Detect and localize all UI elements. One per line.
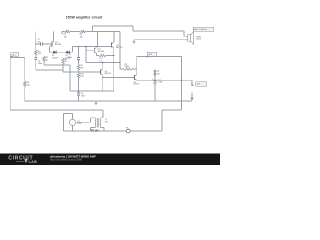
svg-text:10u: 10u: [38, 41, 41, 43]
svg-text:1N4007: 1N4007: [52, 57, 58, 59]
svg-text:10k: 10k: [64, 36, 67, 38]
svg-text:100R: 100R: [124, 66, 129, 68]
svg-text:F1: F1: [126, 128, 128, 130]
svg-text:10k: 10k: [80, 68, 83, 70]
svg-text:8ohm: 8ohm: [196, 39, 201, 41]
svg-text:1k: 1k: [46, 60, 48, 62]
svg-text:8ohm / 100W spk: 8ohm / 100W spk: [194, 29, 207, 31]
svg-text:100n: 100n: [38, 63, 42, 65]
svg-text:220V: 220V: [77, 123, 82, 125]
svg-text:http://circuitlab.com/c/2588: http://circuitlab.com/c/2588: [50, 158, 82, 162]
svg-text:LAB: LAB: [29, 160, 38, 164]
svg-text:100n: 100n: [81, 96, 85, 98]
svg-text:10k: 10k: [27, 85, 30, 87]
svg-text:BD139: BD139: [134, 84, 140, 86]
svg-text:10k: 10k: [80, 36, 83, 38]
svg-text:BD140: BD140: [98, 51, 105, 53]
svg-text:150W amplifier circuit: 150W amplifier circuit: [66, 15, 103, 19]
svg-text:47u: 47u: [68, 57, 71, 59]
svg-text:100: 100: [80, 76, 83, 78]
svg-text:10k: 10k: [38, 53, 41, 55]
svg-text:audio: audio: [11, 54, 15, 56]
svg-text:100u: 100u: [158, 82, 162, 84]
svg-text:BC546: BC546: [55, 44, 62, 46]
svg-text:1k: 1k: [65, 61, 67, 63]
svg-text:~: ~: [71, 121, 73, 125]
svg-text:BD139: BD139: [105, 73, 112, 75]
svg-text:TR 12V: TR 12V: [91, 130, 99, 132]
